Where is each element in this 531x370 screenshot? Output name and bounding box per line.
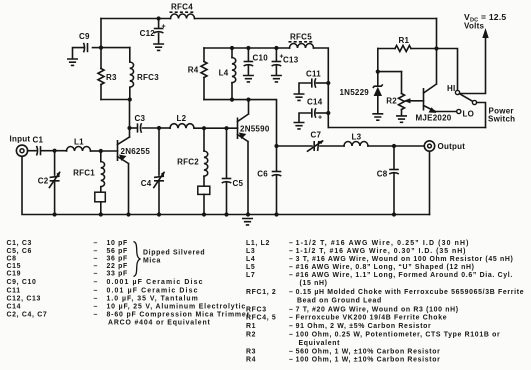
- svg-text:C9: C9: [79, 32, 90, 41]
- svg-text:–: –: [94, 311, 99, 318]
- resistor R3: [100, 48, 102, 69]
- svg-text:2N6255: 2N6255: [121, 147, 151, 156]
- resistor R1: [378, 48, 395, 50]
- svg-text:1N5229: 1N5229: [339, 88, 369, 97]
- svg-text:3 T, #16 AWG Wire, Wound on 10: 3 T, #16 AWG Wire, Wound on 100 Ohm Resi…: [296, 256, 514, 263]
- svg-text:C11: C11: [7, 287, 21, 294]
- svg-text:+: +: [318, 115, 322, 122]
- svg-text:–: –: [289, 264, 294, 271]
- transistor Q3 MJE2020: [423, 88, 425, 111]
- svg-text:–: –: [94, 248, 99, 255]
- node: C12 tap on top rail: [157, 16, 161, 20]
- switch lever and common: [460, 94, 473, 102]
- svg-text:36 pF: 36 pF: [107, 256, 128, 263]
- choke RFC2 with bead: [203, 128, 205, 151]
- svg-text:C1, C3: C1, C3: [7, 240, 33, 247]
- svg-text:–: –: [289, 306, 294, 313]
- svg-text:91 Ohm, 2 W, ±5% Carbon Resist: 91 Ohm, 2 W, ±5% Carbon Resistor: [296, 323, 432, 330]
- svg-text:1-1/2 T, #16 AWG Wire, 0.25” I: 1-1/2 T, #16 AWG Wire, 0.25” I.D (30 nH): [296, 240, 470, 247]
- svg-text:R2: R2: [246, 332, 256, 339]
- node: R1/collector/battery junction: [434, 46, 438, 50]
- svg-text:R3: R3: [106, 73, 117, 82]
- wire: top rail left drop to C9/R3 node: [100, 19, 102, 48]
- svg-text:–: –: [289, 272, 294, 279]
- svg-text:–: –: [289, 357, 294, 364]
- svg-text:RFC5: RFC5: [290, 33, 312, 42]
- svg-text:RFC3: RFC3: [137, 73, 159, 82]
- inductor L3: [344, 142, 368, 147]
- resistor R4: [203, 48, 205, 62]
- wiper arrow R2: [409, 100, 424, 102]
- inductor RFC3: [129, 48, 131, 62]
- svg-text:Mica: Mica: [143, 258, 161, 265]
- capacitor C14: [294, 123, 305, 129]
- svg-text:–: –: [289, 256, 294, 263]
- capacitor C13: [274, 46, 278, 50]
- svg-text:L1, L2: L1, L2: [246, 240, 270, 247]
- wire: switched supply rail: [328, 127, 485, 129]
- svg-text:C12, C13: C12, C13: [7, 295, 42, 302]
- input connector J1: [16, 145, 27, 156]
- node: RFC2 tap: [202, 126, 206, 130]
- svg-text:R1: R1: [246, 323, 256, 330]
- svg-text:C13: C13: [283, 56, 299, 65]
- svg-text:33 pF: 33 pF: [107, 271, 128, 278]
- svg-text:–: –: [289, 240, 294, 247]
- output connector J2: [424, 141, 434, 151]
- battery feed V DC: [461, 36, 486, 94]
- svg-text:R4: R4: [246, 357, 256, 364]
- rail junction dots: [53, 212, 57, 216]
- node: C9/R3 junction: [99, 46, 103, 50]
- svg-text:R2: R2: [386, 97, 397, 106]
- node: C8 tap: [392, 144, 396, 148]
- wire: stage2 box top rail: [204, 47, 290, 49]
- svg-text:–: –: [289, 348, 294, 355]
- svg-text:Bead on Ground Lead: Bead on Ground Lead: [297, 298, 382, 305]
- svg-text:C12: C12: [140, 29, 156, 38]
- svg-text:C5, C6: C5, C6: [7, 248, 33, 255]
- trimmer C7 (horizontal): [277, 145, 313, 147]
- svg-text:C8: C8: [377, 170, 388, 179]
- svg-text:RFC4: RFC4: [171, 3, 193, 12]
- svg-text:Input: Input: [10, 135, 31, 144]
- svg-text:#16 AWG Wire, 0.8” Long, “U” S: #16 AWG Wire, 0.8” Long, “U” Shaped (12 …: [296, 264, 475, 271]
- svg-text:0.01 µF Ceramic Disc: 0.01 µF Ceramic Disc: [107, 287, 199, 294]
- svg-text:C9, C10: C9, C10: [7, 279, 37, 286]
- svg-text:1-1/2 T, #16 AWG Wire, 0.30”: 1-1/2 T, #16 AWG Wire, 0.30” I.D. (35 nH…: [296, 248, 467, 255]
- svg-text:L4: L4: [219, 69, 229, 78]
- svg-text:C4: C4: [141, 179, 152, 188]
- svg-text:–: –: [289, 323, 294, 330]
- svg-text:R1: R1: [399, 36, 410, 45]
- wire: to HI contact: [437, 49, 458, 91]
- svg-text:L7: L7: [246, 272, 255, 279]
- node: box bottom to collector: [128, 97, 132, 101]
- svg-text:–: –: [94, 263, 99, 270]
- RFC5: [290, 44, 314, 49]
- inductor L1: [55, 150, 67, 152]
- svg-text:RFC4, 5: RFC4, 5: [246, 315, 276, 322]
- potentiometer R2: [401, 72, 403, 94]
- capacitor C8: [393, 146, 395, 169]
- svg-text:–: –: [289, 315, 294, 322]
- svg-text:ARCO #404 or Equivalent: ARCO #404 or Equivalent: [108, 319, 211, 326]
- svg-text:(15 nH): (15 nH): [300, 280, 328, 287]
- wire: bias box bottom: [101, 99, 130, 101]
- node: zener junction: [376, 70, 380, 74]
- capacitor C5: [226, 128, 228, 178]
- node: C3 junction: [127, 126, 131, 130]
- svg-text:Volts: Volts: [464, 22, 485, 31]
- svg-text:C7: C7: [311, 131, 322, 140]
- svg-text:RFC1, 2: RFC1, 2: [246, 289, 276, 296]
- trimmer C4: [158, 128, 160, 175]
- capacitor C3: [130, 127, 137, 129]
- svg-text:–: –: [94, 287, 99, 294]
- svg-text:Dipped Silvered: Dipped Silvered: [143, 250, 205, 257]
- svg-text:0.001 µF Ceramic Disc: 0.001 µF Ceramic Disc: [107, 279, 204, 286]
- choke RFC1 with bead: [100, 151, 102, 162]
- svg-text:C2, C4, C7: C2, C4, C7: [7, 311, 48, 318]
- transistor Q1 2N6255: [117, 140, 119, 161]
- svg-text:0.15 µH Molded Choke with Ferr: 0.15 µH Molded Choke with Ferroxcube 565…: [296, 289, 525, 296]
- svg-text:C8: C8: [7, 256, 17, 263]
- svg-text:C2: C2: [38, 177, 49, 186]
- svg-text:Output: Output: [438, 142, 466, 151]
- svg-text:L3: L3: [246, 248, 255, 255]
- node: input node: [53, 149, 57, 153]
- capacitor C9: [93, 47, 102, 49]
- node: output node: [274, 144, 278, 148]
- svg-text:L3: L3: [352, 133, 362, 142]
- wire: top supply rail y=18.5: [101, 18, 437, 20]
- capacitor C1: [28, 150, 36, 152]
- svg-text:C3: C3: [135, 114, 146, 123]
- wire: stage2 box bottom rail: [204, 100, 277, 146]
- svg-text:MJE2020: MJE2020: [416, 114, 452, 123]
- trimmer C2: [54, 151, 56, 175]
- svg-text:C11: C11: [306, 70, 321, 79]
- svg-text:RFC3: RFC3: [246, 306, 267, 313]
- RFC4: [171, 14, 195, 19]
- svg-text:R4: R4: [188, 66, 199, 75]
- svg-text:22 pF: 22 pF: [107, 263, 128, 270]
- svg-text:–: –: [94, 271, 99, 278]
- svg-text:R3: R3: [246, 348, 256, 355]
- ground (C12): [153, 44, 164, 50]
- capacitor C6: [276, 146, 278, 171]
- svg-text:Ferroxcube VK200 19/4B Ferrite: Ferroxcube VK200 19/4B Ferrite Choke: [296, 315, 448, 322]
- svg-text:10 pF: 10 pF: [107, 240, 128, 247]
- zener diode 1N5229: [377, 72, 379, 86]
- svg-text:#16 AWG Wire, 1.1” Long, Forme: #16 AWG Wire, 1.1” Long, Formed Around 0…: [296, 272, 513, 279]
- node: collector tap: [246, 98, 250, 102]
- svg-text:Equivalent: Equivalent: [299, 340, 341, 347]
- svg-text:C19: C19: [7, 271, 22, 278]
- svg-text:2N5590: 2N5590: [240, 125, 270, 134]
- inductor L2: [159, 127, 170, 129]
- ground (C9): [67, 59, 78, 65]
- svg-text:L5: L5: [246, 264, 255, 271]
- svg-text:LO: LO: [463, 110, 475, 119]
- svg-text:7 T, #20 AWG Wire, Wound on R3: 7 T, #20 AWG Wire, Wound on R3 (100 nH): [296, 306, 459, 313]
- svg-text:HI: HI: [447, 84, 456, 93]
- capacitor C10: [246, 46, 250, 50]
- brace: [134, 242, 141, 277]
- wire: ground bottom rail: [22, 156, 430, 214]
- svg-text:–: –: [289, 248, 294, 255]
- svg-text:8-60 pF Compression Mica Trimm: 8-60 pF Compression Mica Trimmer: [107, 311, 251, 318]
- svg-text:L4: L4: [246, 256, 255, 263]
- capacitor C11: [294, 94, 305, 100]
- svg-text:–: –: [94, 256, 99, 263]
- svg-text:C10: C10: [253, 54, 269, 63]
- svg-text:C14: C14: [307, 98, 323, 107]
- svg-text:C6: C6: [257, 170, 268, 179]
- transistor Q2 2N5590: [237, 118, 239, 140]
- capacitor C12: [158, 19, 160, 29]
- inductor L4: [230, 46, 234, 50]
- svg-text:–: –: [94, 303, 99, 310]
- node: C3/L2/C4 junction: [157, 126, 161, 130]
- svg-text:C1: C1: [33, 136, 44, 145]
- wire: collector feed down: [129, 100, 131, 138]
- svg-text:–: –: [289, 289, 294, 296]
- svg-text:1.0 µF, 35 V, Tantalum: 1.0 µF, 35 V, Tantalum: [107, 295, 199, 302]
- svg-text:RFC2: RFC2: [177, 158, 199, 167]
- svg-text:C14: C14: [7, 303, 22, 310]
- node: C5 tap: [224, 126, 228, 130]
- svg-text:–: –: [94, 240, 99, 247]
- wire: bias box top: [101, 47, 130, 49]
- svg-text:C15: C15: [7, 263, 22, 270]
- svg-text:C5: C5: [233, 179, 244, 188]
- svg-text:10 µF, 25 V, Aluminum Electrol: 10 µF, 25 V, Aluminum Electrolytic: [107, 303, 247, 310]
- svg-text:–: –: [289, 332, 294, 339]
- svg-text:–: –: [94, 279, 99, 286]
- svg-text:+: +: [162, 24, 166, 31]
- svg-text:L2: L2: [177, 114, 187, 123]
- svg-text:56 pF: 56 pF: [107, 248, 128, 255]
- svg-text:560 Ohm, 1 W, ±10% Carbon Resi: 560 Ohm, 1 W, ±10% Carbon Resistor: [296, 348, 441, 355]
- svg-text:100 Ohm, 1 W, ±10% Carbon Resi: 100 Ohm, 1 W, ±10% Carbon Resistor: [296, 357, 441, 364]
- svg-text:–: –: [94, 295, 99, 302]
- ground (Q2 emitter): [242, 219, 253, 225]
- node: base node Q1: [99, 149, 103, 153]
- switch LO contact: [457, 109, 461, 113]
- switch HI contact: [455, 90, 459, 94]
- svg-text:100 Ohm, 0.25 W, Potentiometer: 100 Ohm, 0.25 W, Potentiometer, CTS Type…: [296, 332, 501, 339]
- svg-text:L1: L1: [74, 138, 84, 147]
- svg-text:Switch: Switch: [488, 115, 515, 124]
- svg-text:RFC1: RFC1: [73, 169, 95, 178]
